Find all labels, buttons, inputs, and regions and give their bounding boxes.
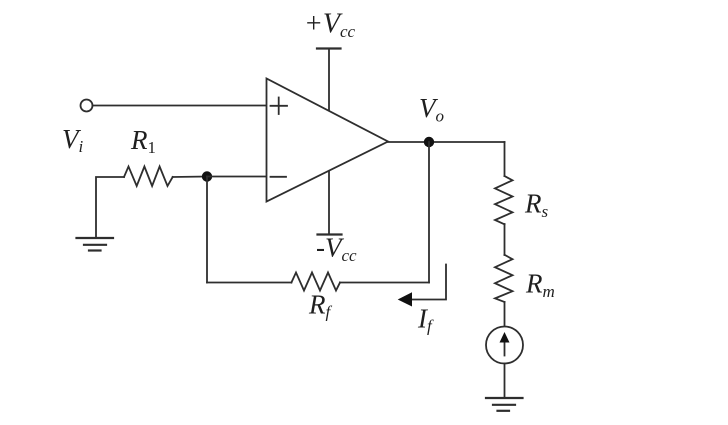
wire: feedback bottom right segment bbox=[340, 282, 429, 284]
svg-text:If: If bbox=[417, 304, 434, 336]
wire: Rs to Rm bbox=[504, 224, 506, 255]
wire: input terminal to op-amp noninverting input bbox=[93, 105, 267, 107]
current If annotation arrow bbox=[398, 265, 446, 307]
current source I1 bbox=[486, 327, 523, 364]
wire: current source to ground bbox=[504, 364, 506, 399]
svg-text:Rm: Rm bbox=[525, 269, 555, 302]
resistor Rs bbox=[495, 176, 513, 224]
wire: junction to op-amp inverting input bbox=[207, 176, 266, 178]
svg-text:Rf: Rf bbox=[308, 290, 333, 322]
svg-text:R1: R1 bbox=[130, 125, 156, 157]
wire: feedback left vertical up to junction bbox=[206, 177, 208, 283]
wire: op-amp output to Vo node and right bbox=[388, 141, 505, 143]
svg-text:+Vcc: +Vcc bbox=[304, 9, 356, 42]
+Vcc supply bar and wire bbox=[317, 49, 341, 111]
ground (left, input) bbox=[77, 238, 114, 251]
-Vcc supply wire and bar bbox=[318, 172, 342, 235]
input terminal circle bbox=[81, 100, 93, 112]
wire: down from corner to Rs bbox=[504, 142, 506, 176]
node Vo (dot) bbox=[424, 137, 434, 147]
op-amp minus sign bbox=[271, 176, 287, 178]
op-amp U1 triangle bbox=[267, 79, 389, 202]
resistor Rf bbox=[291, 273, 340, 291]
svg-text:Rs: Rs bbox=[524, 189, 549, 222]
wire: R1 to inverting input junction bbox=[173, 176, 207, 179]
wire: Rm to current source bbox=[504, 302, 506, 327]
ground (bottom right) bbox=[486, 398, 523, 411]
svg-text:Vo: Vo bbox=[419, 93, 444, 126]
op-amp plus sign bbox=[271, 98, 288, 115]
wire: feedback vertical from Vo node down bbox=[428, 142, 430, 283]
svg-text:Vi: Vi bbox=[62, 124, 84, 156]
wire: feedback bottom left segment bbox=[207, 282, 291, 284]
svg-text:-Vcc: -Vcc bbox=[316, 233, 357, 266]
wire: left vertical from R1 to ground bbox=[96, 177, 124, 238]
resistor Rm bbox=[495, 255, 513, 302]
resistor R1 bbox=[124, 167, 173, 187]
node: inverting input junction bbox=[202, 171, 212, 181]
